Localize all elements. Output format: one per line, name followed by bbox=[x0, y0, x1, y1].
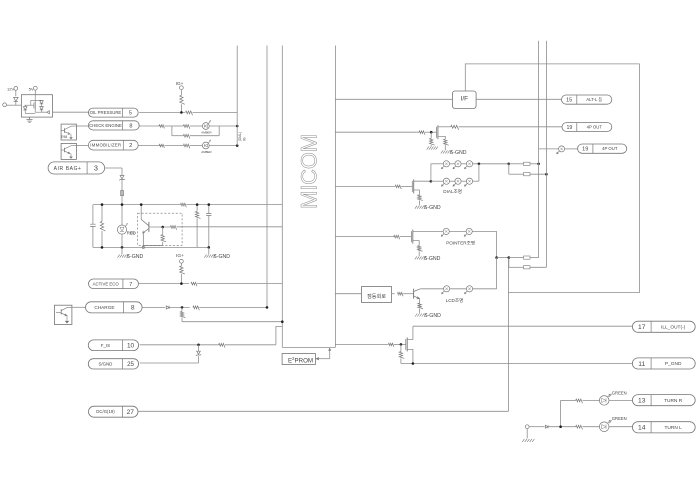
wire MICOM to Q7 gate bbox=[335, 131, 419, 133]
svg-text:P_GND: P_GND bbox=[665, 361, 682, 367]
transistor Q5 (CHARGE) bbox=[54, 305, 72, 324]
resistor R7 bbox=[183, 144, 202, 148]
lamp L1 (4P OUT) bbox=[557, 146, 578, 154]
lamp L10 LCD bbox=[442, 286, 467, 294]
svg-text:13: 13 bbox=[638, 398, 646, 405]
wire CHECK ENGINE line bbox=[139, 125, 160, 127]
connector pin 7 ACTIVE ECO bbox=[89, 279, 139, 289]
interface U4 I/F box bbox=[452, 91, 476, 108]
resistor R17 bbox=[219, 327, 283, 348]
resistor R34 bbox=[576, 399, 600, 403]
lamp L9 POINTER bbox=[464, 228, 496, 236]
lamp L5 DIAL row2 bbox=[431, 178, 455, 186]
photocoupler Q4 (IMMOBILIZER) bbox=[61, 143, 76, 159]
wire Q3 to CHECK ENGINE pill bbox=[76, 125, 88, 127]
U1 internal zener pair bbox=[23, 101, 46, 114]
svg-text:4P OUT: 4P OUT bbox=[587, 125, 603, 130]
connector pin 8 CHECK ENGINE bbox=[88, 121, 139, 130]
resistor R29 (chip) bbox=[509, 258, 547, 269]
svg-text:IMMOBILIZER: IMMOBILIZER bbox=[90, 143, 121, 148]
dashed box around Q6 bbox=[138, 213, 182, 245]
node junction check bbox=[236, 125, 239, 128]
svg-text:15: 15 bbox=[566, 98, 572, 104]
svg-text:S-GND: S-GND bbox=[127, 254, 144, 260]
capacitor C2 bbox=[206, 205, 211, 248]
svg-text:12V: 12V bbox=[7, 86, 14, 91]
resistor R13 bbox=[180, 266, 185, 284]
capacitor C1 bbox=[90, 205, 96, 248]
wire Q6 base node bbox=[149, 226, 171, 229]
wire OIL PRESSURE to node bbox=[139, 111, 185, 113]
wire MICOM to Q11 gate bbox=[335, 343, 388, 345]
svg-text:AIR BAG+: AIR BAG+ bbox=[54, 166, 82, 172]
wire CHARGE line bbox=[142, 306, 165, 308]
diode D5 (shaded) bbox=[121, 191, 124, 205]
U1 output arrow bbox=[47, 111, 50, 114]
resistor R24 (chip) bbox=[509, 162, 540, 165]
resistor R30 bbox=[392, 292, 414, 296]
resistor R6 (small) bbox=[159, 144, 183, 148]
resistor R21 (gate pulldown) bbox=[427, 132, 438, 149]
resistor R1 (IG+ pullup) bbox=[180, 95, 185, 112]
wire AIR BAG+ feed bbox=[105, 168, 122, 175]
connector pin 25 S/GND bbox=[88, 359, 138, 369]
wire U1 to OIL PRESSURE bbox=[53, 111, 90, 113]
svg-text:27: 27 bbox=[127, 409, 135, 416]
resistor R8 on bus bbox=[181, 203, 187, 207]
svg-text:DIAL조명: DIAL조명 bbox=[443, 188, 462, 194]
resistor R14 bbox=[191, 282, 282, 286]
dimming circuit box U5 bbox=[361, 287, 391, 303]
resistor R31 (emitter) bbox=[415, 303, 441, 319]
svg-text:5: 5 bbox=[129, 111, 132, 117]
zener diode D4 bbox=[119, 176, 124, 191]
wire TURN R branch bbox=[561, 400, 576, 426]
resistor R33 (gate pulldown) bbox=[399, 344, 404, 363]
wire MICOM to Q9 gate bbox=[335, 236, 393, 238]
svg-text:11: 11 bbox=[638, 361, 645, 368]
transistor Q7 (4P OUT driver) bbox=[437, 125, 451, 139]
svg-text:S-GND: S-GND bbox=[424, 313, 441, 319]
connector pin 3 AIR BAG+ bbox=[48, 162, 105, 174]
connector pin 8 CHARGE bbox=[86, 302, 143, 313]
svg-text:4P OUT: 4P OUT bbox=[602, 146, 618, 151]
lamp L3 DIAL row1 bbox=[453, 161, 466, 169]
svg-text:S/GND: S/GND bbox=[98, 361, 112, 366]
svg-text:19: 19 bbox=[582, 147, 588, 153]
wire TURN L line bbox=[529, 426, 544, 428]
resistor R2 bbox=[186, 111, 238, 115]
resistor R19 (drain series) bbox=[451, 125, 562, 130]
wire bus to lamp (4P OUT 2) bbox=[539, 148, 559, 150]
svg-text:2: 2 bbox=[129, 143, 132, 149]
wire pointer feed down bbox=[496, 231, 498, 257]
svg-text:F_IS: F_IS bbox=[101, 343, 110, 348]
svg-text:E2PROM: E2PROM bbox=[288, 356, 313, 364]
lamp L8 POINTER bbox=[441, 228, 466, 236]
transistor Q6 bbox=[141, 205, 149, 249]
bus line B1 bbox=[538, 41, 540, 258]
svg-text:8: 8 bbox=[131, 305, 135, 312]
svg-text:I/F: I/F bbox=[461, 96, 469, 103]
LED D6 RED bbox=[117, 205, 135, 248]
connector pin 11 P_GND bbox=[632, 358, 695, 369]
op-amp U2 MICOM block bbox=[282, 46, 335, 348]
resistor R25 (chip) bbox=[509, 164, 548, 176]
resistor R23 (source) bbox=[415, 195, 441, 211]
U1 internal mosfet bbox=[25, 95, 47, 113]
resistor R28 (chip) bbox=[509, 256, 539, 259]
svg-text:IG: IG bbox=[243, 137, 247, 141]
photocoupler Q3 (CHECK ENGINE) bbox=[61, 124, 76, 140]
zener diode D8 (S/GND to F_IS) bbox=[140, 345, 201, 363]
resistor R11 (base series) bbox=[170, 226, 282, 230]
wire middle bottom bus bbox=[93, 246, 209, 248]
svg-text:TURN R: TURN R bbox=[664, 398, 683, 404]
node dial feed bbox=[508, 163, 511, 166]
svg-text:AMBER: AMBER bbox=[201, 150, 211, 154]
resistor R9 bbox=[100, 205, 105, 248]
svg-text:TURN L: TURN L bbox=[664, 425, 682, 431]
svg-text:S-GND: S-GND bbox=[450, 150, 467, 156]
connector pin 10 F_IS bbox=[88, 340, 138, 351]
wire P_GND line bbox=[401, 362, 633, 365]
svg-text:S-GND: S-GND bbox=[213, 254, 230, 260]
IG+ supply terminal (top) bbox=[176, 81, 184, 95]
connector pin 5 OIL PRESSURE bbox=[88, 108, 138, 117]
svg-text:25: 25 bbox=[127, 361, 134, 368]
wire MICOM to I/F bbox=[335, 98, 452, 100]
connector pin 27 DC/G(19) bbox=[89, 406, 139, 417]
wire DIAL lamp feed bbox=[430, 164, 444, 183]
resistor R16 (to MICOM) bbox=[180, 307, 283, 323]
svg-text:7: 7 bbox=[129, 282, 132, 288]
power input 12V terminal bbox=[7, 86, 18, 96]
ground below U1 bbox=[26, 117, 32, 123]
svg-text:ALT-L 등: ALT-L 등 bbox=[586, 97, 602, 102]
lamp L6 DIAL row2 bbox=[453, 178, 466, 186]
node junction immobilizer bbox=[236, 144, 239, 147]
svg-text:MICOM: MICOM bbox=[297, 134, 322, 209]
svg-text:10: 10 bbox=[127, 343, 135, 350]
svg-text:점등회로: 점등회로 bbox=[367, 292, 386, 300]
transistor Q10 (LCD driver) bbox=[414, 289, 444, 304]
resistor R18 bbox=[419, 131, 437, 135]
svg-text:CHECK ENGINE: CHECK ENGINE bbox=[89, 123, 122, 128]
connector pin 19 4P OUT (first) bbox=[562, 123, 612, 132]
connector pin 19 4P OUT (second) bbox=[578, 144, 627, 153]
net line to MICOM (x=267) bbox=[266, 46, 268, 308]
wire MICOM to Q8 gate bbox=[335, 185, 395, 187]
svg-text:19: 19 bbox=[566, 125, 572, 131]
wire IMMOBILIZER line bbox=[138, 145, 159, 147]
svg-text:ILL_OUT(-): ILL_OUT(-) bbox=[661, 324, 686, 330]
wire parallel branch split bbox=[172, 126, 184, 136]
resistor R15 bbox=[193, 306, 268, 310]
svg-text:GREEN: GREEN bbox=[612, 416, 627, 421]
connector pin 15 ALT-L bbox=[562, 95, 612, 104]
wire middle top bus bbox=[93, 204, 282, 206]
svg-text:ACTIVE ECO: ACTIVE ECO bbox=[93, 281, 120, 286]
bus line B2 bbox=[545, 41, 547, 268]
connector pin 2 IMMOBILIZER bbox=[88, 140, 138, 150]
connector pin 17 ILL_OUT(-) bbox=[632, 321, 695, 332]
input terminal (left) bbox=[3, 103, 22, 107]
svg-text:S-GND: S-GND bbox=[424, 256, 441, 262]
junction dots middle bus bbox=[101, 203, 104, 206]
E2PROM U3 bbox=[282, 354, 315, 365]
diode D1 on 12V feed bbox=[14, 97, 18, 105]
wire ILL_OUT line bbox=[413, 325, 633, 327]
node pointer/lcd feed bbox=[495, 256, 510, 259]
resistor R12 bbox=[195, 205, 200, 248]
resistor R26 bbox=[394, 235, 412, 239]
svg-text:AMBER: AMBER bbox=[201, 130, 211, 134]
transistor Q9 (POINTER driver) bbox=[411, 230, 443, 246]
resistor R10 (base pulldown) bbox=[143, 227, 166, 245]
svg-text:14: 14 bbox=[638, 425, 646, 432]
diode D7 (small) bbox=[166, 306, 190, 309]
resistor R22 bbox=[395, 185, 412, 189]
lamp L4 DIAL row1 bbox=[465, 161, 509, 169]
terminal and ground (turn feed) bbox=[522, 425, 534, 442]
LED D11 GREEN (turn left) bbox=[599, 416, 632, 432]
svg-text:8: 8 bbox=[129, 123, 132, 129]
svg-text:IG+: IG+ bbox=[176, 253, 184, 259]
wire E2PROM to MICOM with arrows bbox=[315, 348, 331, 361]
IG+ supply terminal (middle) bbox=[176, 253, 184, 266]
ground S-GND right bbox=[204, 247, 230, 260]
power input 5V terminal bbox=[29, 86, 37, 94]
svg-text:POINTER조명: POINTER조명 bbox=[446, 240, 475, 246]
wire I/F feedback loop bbox=[465, 64, 639, 293]
LED D9 GREEN (turn right) bbox=[599, 391, 632, 406]
svg-text:LCD조명: LCD조명 bbox=[446, 297, 464, 303]
wire Q5 to CHARGE pill bbox=[72, 306, 86, 308]
LED D3 AMBER bbox=[201, 140, 237, 154]
wire F_IS line bbox=[140, 344, 219, 347]
wire I/F to ALT-L pill bbox=[476, 98, 561, 100]
resistor R32 (small) bbox=[388, 343, 405, 347]
net line to MICOM (x=237) bbox=[236, 46, 238, 146]
node A junction bbox=[180, 111, 183, 114]
wire lcd feed up bbox=[496, 258, 498, 289]
svg-text:3: 3 bbox=[94, 164, 98, 173]
svg-text:S-GND: S-GND bbox=[424, 205, 441, 211]
LED D2 AMBER bbox=[201, 120, 237, 134]
svg-text:OIL PRESSURE: OIL PRESSURE bbox=[90, 110, 122, 115]
wire ACTIVE ECO line bbox=[139, 282, 190, 285]
ground S-GND left bbox=[118, 247, 144, 260]
lamp L2 DIAL row1 bbox=[441, 161, 454, 169]
resistor R35 bbox=[576, 425, 600, 429]
svg-text:ED: ED bbox=[130, 231, 135, 235]
lamp L11 LCD bbox=[465, 286, 497, 294]
regulator IC U1 box bbox=[21, 95, 52, 117]
lamp L7 DIAL row2 bbox=[465, 164, 479, 186]
wire DC/G(19) illumination feed bbox=[138, 258, 509, 412]
resistor R5 (parallel lower branch) bbox=[172, 126, 219, 139]
resistor R27 (source) bbox=[415, 246, 441, 262]
svg-text:(DIAL): (DIAL) bbox=[238, 132, 242, 141]
resistor R20 (source) bbox=[441, 139, 467, 156]
transistor Q8 (DIAL driver) bbox=[412, 179, 431, 194]
transistor Q11 (ILL driver) bbox=[406, 326, 413, 363]
svg-text:DC/G(19): DC/G(19) bbox=[96, 409, 115, 414]
wire Q4 to IMMOBILIZER pill bbox=[76, 144, 88, 146]
wire MICOM to dimming box bbox=[335, 293, 361, 295]
resistor R4 bbox=[183, 125, 202, 129]
svg-text:17: 17 bbox=[638, 324, 646, 331]
connector pin 14 TURN L bbox=[632, 422, 695, 433]
svg-text:CHARGE: CHARGE bbox=[94, 305, 114, 310]
diode D10 (small) bbox=[545, 425, 575, 428]
resistor R3 (small) bbox=[159, 125, 172, 129]
svg-text:GREEN: GREEN bbox=[612, 391, 627, 396]
svg-text:E98: E98 bbox=[61, 135, 67, 139]
connector pin 13 TURN R bbox=[632, 395, 695, 406]
